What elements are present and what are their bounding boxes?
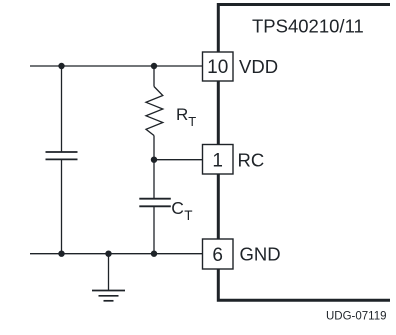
svg-text:TPS40210/11: TPS40210/11 xyxy=(252,16,364,37)
svg-text:C: C xyxy=(171,198,184,218)
svg-text:1: 1 xyxy=(212,150,223,171)
node junction bottom-gnd xyxy=(105,251,111,257)
wire top rail VDD xyxy=(30,65,203,67)
node junction top-RT xyxy=(151,63,157,69)
ground xyxy=(92,254,125,301)
wire RT to CT xyxy=(153,136,155,199)
pin 6 box xyxy=(203,239,234,269)
capacitor CT plates xyxy=(139,199,171,207)
wire RC horizontal xyxy=(154,159,203,161)
svg-text:GND: GND xyxy=(240,244,281,265)
svg-text:RC: RC xyxy=(238,150,265,171)
svg-text:T: T xyxy=(184,208,192,223)
wire left branch upper xyxy=(61,66,63,152)
resistor RT xyxy=(146,87,163,136)
pin 1 box xyxy=(203,145,234,175)
pin 10 box xyxy=(203,52,234,81)
svg-text:10: 10 xyxy=(207,57,228,78)
node junction bottom-left xyxy=(58,251,64,257)
node junction bottom-RT xyxy=(151,251,157,257)
svg-text:VDD: VDD xyxy=(239,56,278,77)
node junction top-left xyxy=(58,63,64,69)
svg-text:R: R xyxy=(176,105,188,124)
node junction RC xyxy=(151,157,157,163)
wire RT top stub xyxy=(153,66,155,87)
svg-text:6: 6 xyxy=(212,245,223,266)
IC U1 TPS40210/11 outline xyxy=(218,5,390,301)
capacitor C-in left plates xyxy=(46,152,78,159)
svg-text:T: T xyxy=(188,114,196,129)
svg-text:UDG-07119: UDG-07119 xyxy=(326,310,387,322)
wire CT bottom stub xyxy=(153,206,155,253)
wire bottom rail GND xyxy=(30,253,203,255)
wire left branch lower xyxy=(61,159,63,253)
